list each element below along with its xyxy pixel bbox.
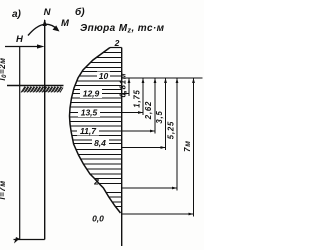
bottom tick arrow <box>14 237 20 244</box>
svg-text:13,5: 13,5 <box>81 108 98 118</box>
rotated depth labels <box>119 73 193 152</box>
svg-text:0,81м: 0,81м <box>119 73 128 98</box>
svg-text:l=7м: l=7м <box>0 180 7 199</box>
svg-text:3,5: 3,5 <box>155 110 164 123</box>
arrowheads at depth line ends <box>124 92 194 215</box>
moment arc M <box>28 24 58 35</box>
label 13,5 <box>78 108 100 118</box>
moment diagram axis <box>121 48 123 247</box>
svg-text:l0=2м: l0=2м <box>0 57 8 80</box>
row 8,4 <box>74 143 122 145</box>
N force arrowhead <box>43 19 47 26</box>
svg-text:а): а) <box>12 9 22 20</box>
svg-text:M: M <box>61 18 70 29</box>
svg-text:8,4: 8,4 <box>94 138 106 148</box>
svg-text:б): б) <box>75 6 85 18</box>
label 11,7 <box>77 126 99 136</box>
ground hatch <box>21 87 63 93</box>
svg-text:7м: 7м <box>183 140 192 152</box>
label 12,9 <box>80 89 102 99</box>
row 11,7 <box>71 130 122 132</box>
depth extension lines with arrows <box>122 94 194 215</box>
pile axis (vertical line, panel a) <box>44 20 46 240</box>
label 8,4 <box>92 138 109 148</box>
svg-text:2: 2 <box>114 38 120 48</box>
dimension verticals <box>129 78 194 217</box>
svg-text:N: N <box>44 7 52 18</box>
moment arrowhead <box>53 25 60 31</box>
svg-text:0,0: 0,0 <box>92 214 104 224</box>
svg-text:11,7: 11,7 <box>80 126 97 136</box>
label 10 <box>97 71 110 81</box>
svg-text:1,75: 1,75 <box>133 89 142 107</box>
svg-text:H: H <box>16 34 24 45</box>
top reference line (right dimensions) <box>122 77 203 79</box>
top edge of diagram <box>110 47 122 49</box>
row 13,5 <box>70 112 122 114</box>
moment curve <box>70 48 121 214</box>
svg-text:12,9: 12,9 <box>83 89 100 99</box>
value row lines <box>70 76 122 144</box>
ground line <box>7 85 64 87</box>
row 12,9 <box>73 93 122 95</box>
row 10 <box>79 75 122 77</box>
hatch lines of diagram <box>70 53 122 207</box>
svg-text:10: 10 <box>99 71 109 81</box>
pile bottom line <box>14 239 45 241</box>
svg-text:5,25: 5,25 <box>167 121 176 139</box>
svg-text:Эпюра Мz, тс·м: Эпюра Мz, тс·м <box>80 23 165 35</box>
svg-text:2,62: 2,62 <box>144 101 153 120</box>
arrowheads on verticals (up at top) <box>128 78 195 83</box>
left dimension / pile edge line <box>19 47 21 240</box>
H force arrow <box>5 46 41 48</box>
